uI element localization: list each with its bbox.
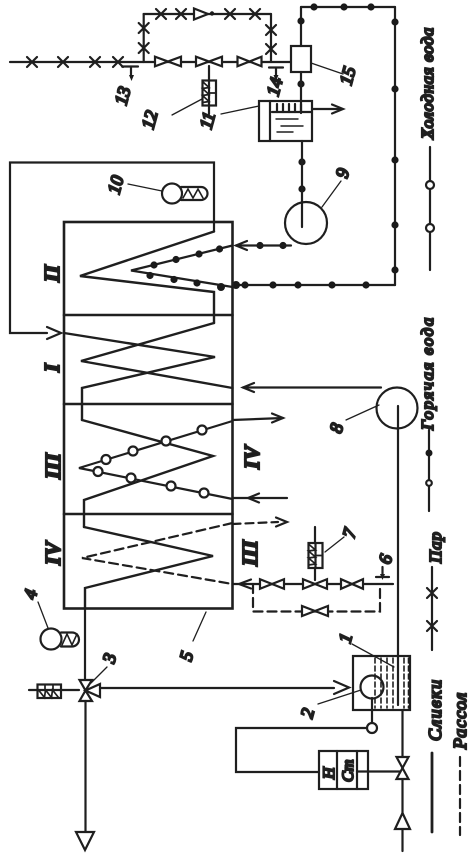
arrow cold outlet [272, 414, 283, 423]
wire steam main line [10, 61, 291, 63]
wire pump 8 down to tank 1 [397, 406, 399, 705]
wire bypass top line [144, 13, 271, 15]
svg-text:Н: Н [321, 766, 338, 780]
label 4 leader [38, 602, 48, 628]
outer cream pipe loop [10, 163, 214, 334]
normalizer box H/Ct [319, 751, 368, 789]
section II hot coil [131, 246, 233, 288]
svg-text:11: 11 [196, 110, 220, 131]
regulator 12 [203, 81, 217, 115]
wire hot riser from heater 15 up [300, 7, 302, 46]
wire valve 3 to tank 1 [100, 687, 334, 689]
svg-text:9: 9 [332, 166, 354, 180]
reducing valve on bypass [194, 9, 208, 20]
wire hot run to exchanger [233, 284, 395, 286]
wire cold water outlet stub [233, 418, 284, 420]
svg-text:8: 8 [326, 421, 348, 435]
svg-text:15: 15 [336, 64, 360, 87]
svg-text:IV: IV [41, 540, 65, 566]
valve manifold mid [303, 579, 327, 589]
tank 11 [259, 101, 312, 141]
arrow overflow [332, 105, 343, 114]
svg-text:Рассол: Рассол [450, 692, 470, 750]
valve on brine line [397, 757, 409, 779]
valve manifold right [341, 579, 363, 589]
label 15 leader [311, 63, 343, 74]
valve manifold left [260, 579, 284, 589]
steam joint X marks on main line [27, 9, 276, 67]
cold coil circles [94, 426, 209, 498]
sampling point 14 [269, 68, 283, 82]
section I hot coil [81, 323, 233, 388]
wire hot right down run [394, 7, 396, 285]
svg-text:4: 4 [20, 587, 42, 601]
svg-text:13: 13 [111, 84, 135, 107]
regulator 7 [309, 527, 323, 580]
dashed steam bypass [253, 584, 380, 612]
arrow into section I [47, 327, 61, 339]
heater 15 [291, 46, 311, 72]
svg-text:14: 14 [263, 75, 287, 98]
svg-text:1: 1 [335, 631, 357, 645]
svg-text:2: 2 [297, 706, 319, 720]
regulator on left stub [38, 685, 62, 699]
section III cream coil [82, 420, 213, 527]
svg-text:III: III [41, 453, 65, 480]
pump 9 [285, 202, 327, 244]
valve on bypass [302, 606, 328, 616]
exchanger body 5 [64, 222, 233, 609]
svg-text:IV: IV [240, 444, 264, 470]
label 7 leader [325, 537, 344, 552]
wire valve 3 left stub [29, 689, 79, 691]
label 1 leader [352, 644, 394, 667]
label 2 leader [318, 690, 361, 704]
arrow cold inlet [248, 494, 259, 503]
svg-text:Горячая вода: Горячая вода [418, 316, 437, 431]
svg-text:6: 6 [375, 552, 397, 566]
wire brine line down from tank 1 [401, 710, 403, 851]
node on bypass [210, 11, 214, 15]
svg-text:Ст: Ст [340, 760, 357, 782]
arrow manifold into exchanger [239, 580, 251, 589]
label 9 leader [322, 181, 341, 207]
svg-text:5: 5 [176, 649, 198, 663]
wire pump 9 outlet [236, 244, 291, 246]
arrow pump 9 feed into section II [236, 241, 247, 250]
legend brine line [459, 757, 461, 835]
thermometer 4 [41, 629, 80, 650]
wire pump 2 outlet [371, 698, 373, 723]
check valve on brine line [395, 813, 410, 829]
svg-text:I: I [40, 363, 64, 373]
arrow brine outlet [276, 518, 287, 527]
valve V3 on steam line [238, 57, 262, 67]
legend hot water line [428, 430, 430, 511]
label 3 leader [91, 667, 107, 683]
legend cold water line [429, 147, 431, 270]
arrow drain down [76, 832, 94, 850]
label 5 leader [193, 612, 206, 641]
section II cream coil [80, 232, 214, 324]
node circle [367, 723, 377, 733]
label 11 leader [221, 106, 259, 114]
tank 1 [353, 656, 410, 710]
wire cold water inlet stub [233, 497, 288, 499]
svg-text:Холодная вода: Холодная вода [418, 27, 437, 140]
wire pump 8 feed line [243, 386, 381, 388]
label 8 leader [346, 405, 379, 420]
arrow into section I from pump 8 [243, 383, 254, 392]
wire exchanger outlet down [84, 608, 86, 680]
section I cream coil [64, 333, 215, 420]
svg-text:12: 12 [138, 108, 162, 131]
wire valve V2 stem [208, 66, 210, 81]
pump 2 [361, 676, 384, 699]
pump 8 [377, 388, 418, 429]
svg-text:7: 7 [339, 525, 361, 540]
svg-text:3: 3 [98, 651, 120, 666]
svg-text:II: II [40, 264, 64, 283]
wire tank 11 overflow [312, 108, 341, 110]
wire valve 3 down to drain [84, 701, 86, 831]
wire bypass left riser [143, 14, 145, 62]
svg-text:Сливки: Сливки [425, 679, 445, 742]
wire heater to tank 11 [300, 72, 302, 113]
section IV brine coil [82, 523, 233, 584]
valve V1 on steam line [155, 57, 181, 67]
drain point 6 [376, 567, 389, 577]
wire box to brine line [357, 770, 403, 772]
hot water dots [232, 3, 399, 289]
valve V2 on steam line [196, 57, 222, 67]
svg-text:10: 10 [104, 173, 128, 196]
label 10 leader [128, 184, 162, 191]
legend cream line [431, 753, 434, 832]
label 12 leader [172, 99, 202, 115]
wire tank 11 to pump 9 [301, 141, 303, 227]
wire cream return run [236, 728, 367, 772]
wire bypass right riser [270, 14, 272, 62]
wire brine outlet stub dashed [233, 522, 279, 524]
thermometer 10 [162, 184, 208, 204]
section III cold coil [79, 421, 233, 499]
sampling point 13 [122, 67, 138, 82]
svg-text:Пар: Пар [426, 531, 445, 564]
hot coil dots section II [146, 245, 225, 291]
three way valve 3 [80, 680, 101, 701]
wire steam manifold to section IV [233, 583, 394, 585]
wire hot top run [301, 6, 395, 8]
svg-text:III: III [238, 540, 262, 567]
section IV cream coil [84, 527, 213, 608]
legend steam line [431, 567, 433, 650]
arrow into tank 1 [334, 681, 349, 694]
